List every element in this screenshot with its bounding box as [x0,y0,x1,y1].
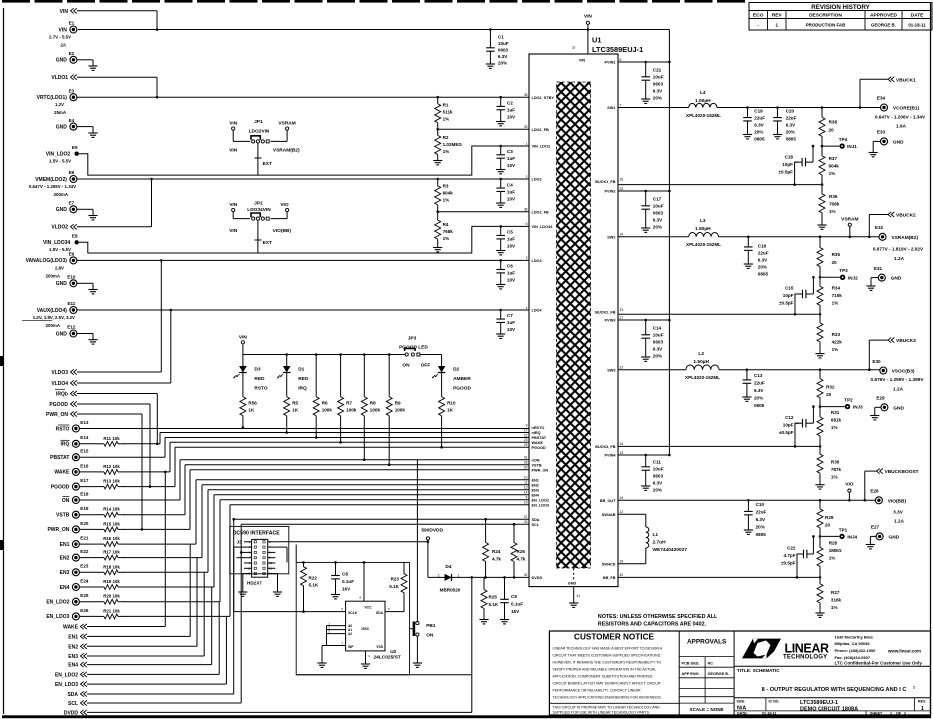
svg-text:1.5V - 5.5V: 1.5V - 5.5V [49,159,71,164]
svg-text:SCLK: SCLK [348,611,358,615]
svg-text:715k: 715k [832,293,843,298]
svg-text:SHEET: SHEET [870,711,883,715]
svg-text:20%: 20% [653,225,662,230]
svg-text:EXT: EXT [263,240,272,246]
svg-text:VBUCK1: VBUCK1 [896,77,916,83]
svg-text:R29: R29 [825,515,834,520]
svg-text:0603: 0603 [498,48,509,53]
svg-text:10V: 10V [507,244,516,249]
svg-text:01-18-11: 01-18-11 [762,711,777,715]
svg-text:E11: E11 [67,301,75,306]
svg-text:LTC Confidential-For Customer: LTC Confidential-For Customer Use Only [835,660,923,665]
svg-text:10pF: 10pF [782,162,793,167]
svg-text:8: 8 [620,58,622,62]
svg-text:WP: WP [348,645,354,649]
svg-text:6.3V: 6.3V [758,257,768,262]
svg-text:SIZE: SIZE [737,699,746,703]
svg-text:R4: R4 [443,222,449,227]
svg-text:VSTB: VSTB [532,463,542,467]
svg-text:R20 10k: R20 10k [103,594,120,599]
svg-text:E14: E14 [80,435,89,440]
svg-text:VIN: VIN [229,202,238,208]
svg-text:EN_LDO2: EN_LDO2 [532,498,550,502]
svg-text:SCALE = NONE: SCALE = NONE [690,707,724,712]
svg-text:WAKE: WAKE [54,470,70,476]
svg-text:E1: E1 [69,21,75,26]
svg-text:D2: D2 [453,367,459,373]
svg-text:RED: RED [254,376,265,382]
svg-text:TP3: TP3 [839,268,848,273]
svg-text:GND: GND [56,281,68,287]
svg-text:R32: R32 [826,385,835,390]
svg-text:REVISION HISTORY: REVISION HISTORY [811,4,870,11]
svg-text:PB1: PB1 [426,623,436,629]
svg-text:Phone: (408)432-1900: Phone: (408)432-1900 [835,648,877,653]
svg-text:LDO1_STBY: LDO1_STBY [532,96,555,100]
svg-text:10V: 10V [507,163,516,168]
svg-text:10: 10 [269,561,273,565]
svg-text:1%: 1% [832,301,839,306]
svg-text:U1: U1 [592,36,601,45]
svg-text:NOTES: UNLESS OTHERWISE SPECIF: NOTES: UNLESS OTHERWISE SPECIFIED ALL [598,614,718,620]
svg-text:22uF: 22uF [754,115,765,120]
svg-text:E5: E5 [72,145,78,150]
svg-text:0603: 0603 [653,474,664,479]
svg-text:PWR_ON: PWR_ON [47,527,69,533]
svg-text:2: 2 [438,574,440,578]
svg-text:R34: R34 [832,286,841,291]
svg-text:VBUCK2: VBUCK2 [896,213,916,219]
svg-text:PGOOD: PGOOD [49,402,68,408]
svg-text:R28: R28 [829,541,838,546]
svg-text:10: 10 [524,476,528,480]
svg-text:E12: E12 [67,325,76,330]
svg-text:14: 14 [524,491,528,495]
svg-text:VERIFY PROPER AND RELIABLE OPE: VERIFY PROPER AND RELIABLE OPERATION IN … [553,668,657,672]
svg-text:VIN: VIN [59,27,68,33]
svg-text:20: 20 [832,260,838,265]
svg-text:PCB DES.: PCB DES. [682,662,700,666]
svg-text:10uF: 10uF [653,75,664,80]
svg-text:PVIN2: PVIN2 [605,190,616,194]
svg-text:VANALOG(LDO3): VANALOG(LDO3) [26,258,68,264]
svg-text:20%: 20% [653,354,662,359]
svg-text:VBUCK3: VBUCK3 [896,338,916,344]
svg-text:APPROVED: APPROVED [870,13,897,19]
svg-text:PBSTAT: PBSTAT [532,436,547,440]
svg-text:WAKE: WAKE [532,441,544,445]
svg-text:16V: 16V [511,609,520,614]
svg-text:24LC025/ST: 24LC025/ST [374,655,401,661]
svg-text:20%: 20% [756,525,765,530]
svg-text:2.7V - 5.5V: 2.7V - 5.5V [49,35,71,40]
svg-text:EN4: EN4 [532,493,540,497]
svg-text:SUPPLIED FOR USE WITH LINEAR T: SUPPLIED FOR USE WITH LINEAR TECHNOLOGY … [553,710,650,714]
svg-text:E28: E28 [870,489,879,494]
svg-text:E7: E7 [69,201,75,206]
svg-text:25: 25 [620,187,624,191]
svg-text:VIO: VIO [280,202,289,208]
svg-text:EN_LDO2: EN_LDO2 [55,672,78,678]
svg-text:23: 23 [524,438,528,442]
svg-text:6.3V: 6.3V [653,347,663,352]
svg-text:16V: 16V [342,587,351,592]
svg-text:7: 7 [620,103,622,107]
svg-text:EN2: EN2 [532,483,539,487]
svg-text:C11: C11 [653,460,662,465]
svg-text:0.1uF: 0.1uF [342,579,354,584]
svg-text:590DVDD: 590DVDD [421,528,443,534]
svg-text:R31: R31 [831,410,840,415]
svg-text:E21: E21 [80,536,89,541]
svg-text:R30: R30 [831,460,840,465]
svg-text:R3: R3 [443,184,449,189]
svg-text:XPL4020-152ML: XPL4020-152ML [685,375,720,380]
svg-text:1uF: 1uF [507,156,515,161]
svg-text:604k: 604k [829,164,840,169]
svg-text:REV.: REV. [918,699,926,703]
svg-text:VLDO3: VLDO3 [51,370,68,376]
svg-text:DVDD: DVDD [532,576,543,580]
svg-text:6.3V: 6.3V [754,122,764,127]
svg-text:6.3V: 6.3V [653,89,663,94]
svg-text:2.8V: 2.8V [55,265,64,270]
svg-text:L4: L4 [700,90,706,96]
svg-text:3.3V: 3.3V [893,510,904,515]
svg-text:LTC3589EUJ-1: LTC3589EUJ-1 [800,700,838,706]
svg-text:100k: 100k [346,407,357,412]
svg-text:6.3V: 6.3V [498,54,508,59]
svg-text:C13: C13 [754,373,763,378]
svg-text:R8: R8 [370,400,376,405]
svg-text:200mA: 200mA [54,192,69,197]
svg-text:RESISTORS AND CAPACITORS ARE 0: RESISTORS AND CAPACITORS ARE 0402. [598,622,707,628]
svg-text:PGOOD: PGOOD [453,386,471,392]
svg-text:E34: E34 [877,96,886,101]
svg-text:2: 2 [526,175,528,179]
svg-text:C20: C20 [786,108,795,113]
svg-text:E33: E33 [877,130,886,135]
svg-text:C15: C15 [785,286,794,291]
svg-text:E22: E22 [80,549,89,554]
svg-text:1uF: 1uF [507,237,515,242]
svg-text:R23: R23 [391,577,400,582]
svg-text:INJ2: INJ2 [848,275,858,280]
svg-text:TITLE: SCHEMATIC: TITLE: SCHEMATIC [737,668,780,673]
svg-text:VSRAM: VSRAM [278,120,295,126]
svg-text:L3: L3 [700,218,706,224]
svg-text:R24: R24 [492,549,501,554]
svg-text:TP1: TP1 [839,527,848,532]
svg-text:ECO: ECO [753,13,764,19]
svg-text:EXT: EXT [263,161,272,167]
svg-text:APP ENG.: APP ENG. [682,672,700,676]
svg-text:HD2X7: HD2X7 [247,581,262,586]
svg-text:1%: 1% [443,198,450,203]
svg-text:E3: E3 [69,88,75,93]
svg-text:36: 36 [524,93,528,97]
svg-text:LDO4: LDO4 [532,309,543,313]
svg-text:1%: 1% [831,605,838,610]
svg-text:C22: C22 [787,546,796,551]
svg-text:DESCRIPTION: DESCRIPTION [809,13,842,19]
svg-text:EN_LDO2: EN_LDO2 [46,600,69,606]
svg-text:EN4: EN4 [68,663,78,669]
svg-text:LINEAR: LINEAR [785,642,830,656]
svg-text:SCL: SCL [532,523,540,527]
svg-text:20%: 20% [498,61,507,66]
svg-text:12: 12 [620,510,624,514]
svg-text:±0.5pF: ±0.5pF [778,169,793,174]
svg-text:VIO: VIO [845,482,854,488]
svg-text:PGOOD LED: PGOOD LED [399,344,428,350]
svg-text:VIN_LDO34: VIN_LDO34 [43,240,70,246]
svg-text:EN1: EN1 [60,542,70,548]
svg-text:JP1: JP1 [254,119,263,125]
svg-text:200mA: 200mA [46,273,61,278]
svg-text:C14: C14 [653,326,662,331]
svg-text:11: 11 [247,566,250,570]
svg-text:316k: 316k [831,598,842,603]
svg-text:WE7440420027: WE7440420027 [653,547,688,553]
svg-text:10V: 10V [507,327,516,332]
svg-text:INJ4: INJ4 [847,535,857,540]
svg-text:1%: 1% [443,236,450,241]
svg-text:100k: 100k [395,407,406,412]
svg-text:Fax: (408)434-0507: Fax: (408)434-0507 [835,655,871,660]
svg-text:PGOOD: PGOOD [532,446,546,450]
svg-text:R33: R33 [832,332,841,337]
svg-text:EN1: EN1 [532,478,539,482]
svg-text:EN_LDO3: EN_LDO3 [532,503,550,507]
svg-text:APPROVALS: APPROVALS [687,639,727,646]
svg-text:1uF: 1uF [507,190,515,195]
svg-text:VLDO2: VLDO2 [51,225,68,231]
svg-text:SW4AB: SW4AB [602,513,616,517]
svg-text:E23: E23 [80,564,89,569]
svg-text:E16: E16 [80,463,89,468]
svg-text:0603: 0603 [653,340,664,345]
svg-text:41: 41 [577,594,581,598]
svg-text:6.3V: 6.3V [653,481,663,486]
svg-text:LDO3: LDO3 [532,259,542,263]
svg-text:1K: 1K [292,407,299,412]
svg-text:0.977V - 1.819V - 2.02V: 0.977V - 1.819V - 2.02V [873,247,924,252]
svg-text:GND: GND [568,582,577,586]
svg-text:A2: A2 [348,632,352,636]
svg-text:VIN: VIN [239,334,248,340]
svg-text:35: 35 [524,125,528,129]
svg-text:TECHNOLOGY APPLICATIONS ENGINE: TECHNOLOGY APPLICATIONS ENGINEERING FOR … [553,696,662,700]
svg-text:CIRCUIT BOARD LAYOUT MAY SIGNI: CIRCUIT BOARD LAYOUT MAY SIGNIFICANTLY A… [553,682,662,686]
svg-text:D3: D3 [254,367,260,373]
svg-text:U2: U2 [390,649,396,655]
svg-text:SCL: SCL [68,701,78,707]
svg-text:RED: RED [298,376,309,382]
svg-text:10uF: 10uF [498,41,509,46]
svg-text:0.647V - 1.206V - 1.34V: 0.647V - 1.206V - 1.34V [29,184,76,189]
svg-text:33: 33 [620,308,624,312]
svg-text:www.linear.com: www.linear.com [887,648,921,653]
svg-text:XPL4020-152ML: XPL4020-152ML [686,242,721,247]
svg-text:20%: 20% [754,129,763,134]
svg-text:R25: R25 [489,595,498,600]
svg-text:22: 22 [524,433,528,437]
svg-text:VIN_LDO34: VIN_LDO34 [532,225,554,229]
svg-text:OFF: OFF [421,363,431,369]
svg-text:EN3: EN3 [532,488,539,492]
svg-text:20%: 20% [653,488,662,493]
svg-text:E20: E20 [80,521,89,526]
svg-text:R36: R36 [829,194,838,199]
svg-text:VIN_LDO2: VIN_LDO2 [46,152,71,158]
svg-text:C19: C19 [754,108,763,113]
svg-text:BUCK1_FB: BUCK1_FB [595,180,616,184]
svg-text:VRTC(LDO1): VRTC(LDO1) [37,95,68,101]
svg-text:10V: 10V [507,278,516,283]
svg-text:ON: ON [426,632,434,638]
svg-text:768k: 768k [829,202,840,207]
svg-text:GND: GND [891,276,902,282]
svg-text:PBSTAT: PBSTAT [50,455,69,461]
svg-text:11: 11 [524,481,528,485]
svg-text:15: 15 [620,451,624,455]
svg-text:VSRAM(B2): VSRAM(B2) [273,148,300,154]
svg-text:LDO2VIN: LDO2VIN [249,128,270,134]
svg-text:R9: R9 [395,400,401,405]
svg-text:VIN: VIN [584,14,593,20]
svg-text:PVIN1: PVIN1 [605,61,616,65]
svg-text:VBUCKBOOST: VBUCKBOOST [885,469,919,475]
svg-text:20: 20 [825,523,831,528]
svg-text:SDA: SDA [67,692,78,698]
svg-text:BB_FB: BB_FB [603,576,616,580]
svg-text:01-18-11: 01-18-11 [908,23,926,28]
svg-text:E18: E18 [80,491,89,496]
svg-text:1%: 1% [831,425,838,430]
svg-text:E9: E9 [69,252,75,257]
svg-text:0.676V - 1.259V - 1.399V: 0.676V - 1.259V - 1.399V [871,377,925,382]
svg-text:E29: E29 [876,396,885,401]
svg-text:VSOC(B3): VSOC(B3) [892,369,915,375]
svg-text:1.50µH: 1.50µH [695,226,711,232]
svg-text:±0.5pF: ±0.5pF [779,430,794,435]
svg-text:C7: C7 [507,313,513,318]
svg-text:E19: E19 [80,506,89,511]
svg-text:38: 38 [524,208,528,212]
svg-text:VSTB: VSTB [56,513,70,519]
svg-text:1.2A: 1.2A [894,518,905,523]
svg-text:D1: D1 [298,367,304,373]
svg-text:14: 14 [269,572,273,576]
svg-text:32: 32 [524,573,528,577]
svg-text:GEORGE B.: GEORGE B. [871,23,896,28]
svg-text:CIRCUIT THAT MEETS CUSTOMER-SU: CIRCUIT THAT MEETS CUSTOMER-SUPPLIED SPE… [553,654,662,658]
svg-text:1.2A: 1.2A [893,386,904,391]
svg-text:R16 10k: R16 10k [103,536,120,541]
svg-text:25XX: 25XX [361,627,370,631]
svg-text:0.647V - 1.206V - 1.34V: 0.647V - 1.206V - 1.34V [875,114,926,119]
svg-text:THIS CIRCUIT IS PROPRIETARY TO: THIS CIRCUIT IS PROPRIETARY TO LINEAR TE… [553,706,661,710]
svg-text:20%: 20% [786,129,795,134]
svg-text:0805: 0805 [756,532,767,537]
svg-text:E24: E24 [80,578,89,583]
svg-text:±0.5pF: ±0.5pF [779,301,794,306]
svg-text:PVIN3: PVIN3 [605,319,616,323]
svg-text:1.2V, 1.8V, 2.5V, 3.2V: 1.2V, 1.8V, 2.5V, 3.2V [33,315,75,320]
svg-text:PRODUCTION FAB: PRODUCTION FAB [806,23,846,28]
svg-text:VIO(BB): VIO(BB) [273,228,292,234]
svg-text:C4: C4 [507,183,513,188]
svg-text:1%: 1% [443,149,450,154]
svg-text:C21: C21 [653,68,662,73]
svg-text:2A: 2A [60,43,66,48]
svg-text:LDO2: LDO2 [532,178,542,182]
svg-text:29: 29 [524,443,528,447]
svg-text:4.7k: 4.7k [492,557,501,562]
svg-text:6.3V: 6.3V [786,122,796,127]
svg-text:C6: C6 [507,264,513,269]
svg-text:0805: 0805 [758,271,769,276]
svg-text:VCC: VCC [364,606,372,610]
svg-text:L2: L2 [698,351,704,357]
svg-text:22uF: 22uF [758,250,769,255]
svg-text:R35: R35 [832,252,841,257]
svg-text:VLDO1: VLDO1 [51,75,68,81]
svg-text:200mA: 200mA [46,323,61,328]
svg-text:22uF: 22uF [756,510,767,515]
svg-text:IRQ: IRQ [298,386,307,392]
svg-text:20: 20 [826,392,832,397]
svg-text:E32: E32 [875,225,884,230]
svg-text:DVDD: DVDD [64,710,79,716]
svg-text:24: 24 [620,233,624,237]
svg-text:DEMO CIRCUIT 1808A: DEMO CIRCUIT 1808A [800,706,858,712]
svg-text:1.50µH: 1.50µH [693,359,709,365]
svg-text:JP3: JP3 [408,336,417,342]
svg-text:R21 10k: R21 10k [103,608,120,613]
svg-text:R15 10k: R15 10k [103,521,120,526]
svg-text:E15: E15 [80,449,89,454]
svg-text:4.7pF: 4.7pF [784,553,796,558]
svg-text:5.1K: 5.1K [309,583,319,588]
svg-text:AMBER: AMBER [453,376,471,382]
svg-text:26: 26 [524,461,528,465]
svg-text:RSTO: RSTO [254,386,268,392]
svg-text:C3: C3 [507,149,513,154]
svg-text:VSRAM: VSRAM [841,217,858,223]
svg-text:SW2: SW2 [607,235,615,239]
svg-text:1.00µH: 1.00µH [695,98,711,104]
svg-text:C12: C12 [785,415,794,420]
svg-text:R22: R22 [309,576,318,581]
svg-text:IC NO.: IC NO. [769,699,780,703]
svg-text:GEORGE B.: GEORGE B. [708,672,730,676]
svg-text:1: 1 [526,142,528,146]
svg-text:DATE: DATE [911,13,925,19]
svg-text:TECHNOLOGY: TECHNOLOGY [783,655,827,661]
svg-text:1%: 1% [829,171,836,176]
svg-text:VAUX(LDO4): VAUX(LDO4) [37,308,68,314]
svg-text:WAKE: WAKE [63,625,79,631]
svg-text:10V: 10V [507,197,516,202]
svg-text:E17: E17 [80,478,89,483]
svg-text:1uF: 1uF [507,108,515,113]
svg-text:R10: R10 [447,400,456,405]
svg-text:R6: R6 [322,400,328,405]
svg-text:SW1: SW1 [607,106,615,110]
svg-text:1%: 1% [829,209,836,214]
